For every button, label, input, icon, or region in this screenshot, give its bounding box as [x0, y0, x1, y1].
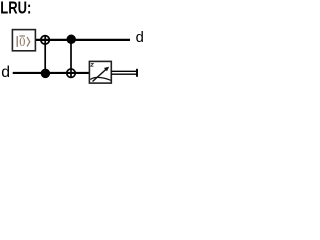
svg-text:0: 0: [19, 35, 25, 49]
svg-text:d: d: [136, 30, 144, 46]
svg-text:LRU:: LRU:: [0, 0, 31, 18]
svg-text:d: d: [1, 64, 10, 81]
